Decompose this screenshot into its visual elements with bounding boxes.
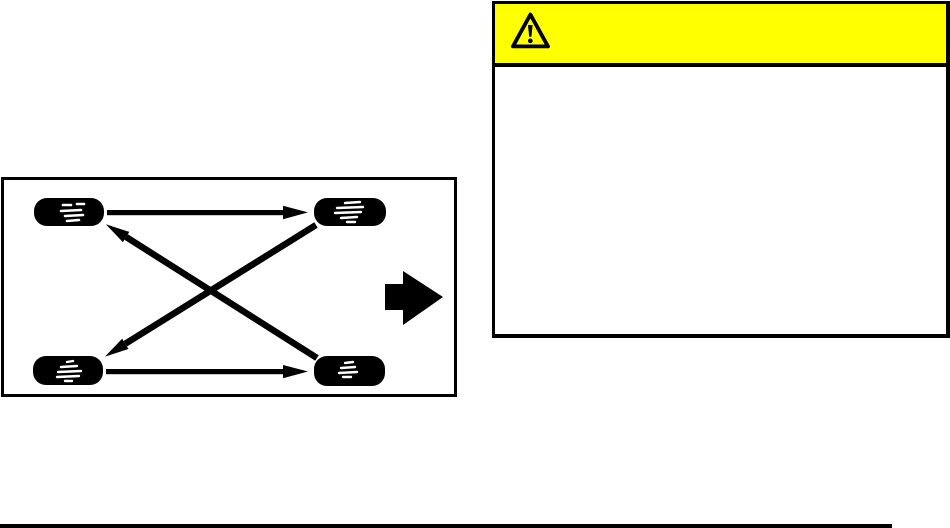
tire front-right xyxy=(314,198,386,226)
warning box yellow header band xyxy=(495,4,946,67)
tire rotation diagram box xyxy=(1,177,457,397)
tire rear-left xyxy=(33,356,103,385)
warning box xyxy=(492,1,950,338)
caution triangle symbol xyxy=(509,11,555,55)
big block arrow pointing right xyxy=(385,271,443,325)
arrow front-left to front-right xyxy=(107,206,308,219)
arrow rear-right to front-left (diagonal) xyxy=(106,224,317,358)
arrow rear-left to rear-right xyxy=(106,365,308,378)
arrow front-right to rear-left (diagonal) xyxy=(105,225,316,357)
tire front-left xyxy=(34,198,104,226)
bottom rule xyxy=(0,524,892,528)
tire rear-right xyxy=(314,356,385,386)
